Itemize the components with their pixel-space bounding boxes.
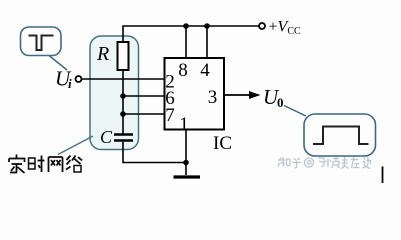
junction dot node 6 [120,93,126,99]
走 [341,157,349,169]
知 [278,157,290,167]
乎 [293,158,302,168]
bubble tail to Ui [49,56,67,71]
svg-text:4: 4 [200,60,210,81]
resistor R body [118,42,129,70]
时 [29,158,36,169]
callout line to timing network label [58,136,93,155]
wire input to pin 2 [82,78,165,80]
IC box [165,58,225,130]
svg-text:1: 1 [179,114,189,135]
timing network highlight box [90,36,139,150]
output waveform (wide positive pulse) [313,127,369,145]
junction dot ground node [183,160,189,166]
svg-text:i: i [68,76,72,91]
svg-text:7: 7 [165,105,175,126]
junction dot pin4 rail [204,23,210,29]
svg-text:8: 8 [178,60,188,81]
wire pin 1 to ground [185,130,187,176]
wire R bottom to capacitor [122,70,124,134]
@ [304,158,313,167]
svg-text:3: 3 [208,87,218,108]
input waveform (narrow negative pulse) [29,36,54,51]
边 [363,157,371,169]
定 [16,155,18,159]
input pulse bubble [21,27,62,56]
stray wire bottom right [382,167,384,184]
wire pin 3 output [224,94,250,96]
capacitor C plates [114,133,133,136]
网 [49,157,63,172]
output bubble tail [284,106,306,117]
svg-text:R: R [96,43,109,65]
惯 [326,157,340,168]
ground bar [174,175,201,178]
svg-text:0: 0 [277,95,284,110]
wire to pin 7 [123,113,165,115]
wire R top to Vcc rail [123,26,259,42]
wire C bottom to ground rail [123,142,186,163]
络 [66,156,71,170]
watermark 知乎 @习惯走左边 [278,157,371,169]
习 [318,158,324,167]
junction dot pin8 rail [183,23,189,29]
wire to pin 6 [123,95,165,97]
Vcc terminal (open circle) [259,23,265,29]
svg-text:C: C [100,127,113,147]
output pulse bubble [304,114,376,156]
output arrowhead [249,91,261,99]
input node (open circle) [76,76,82,82]
wire pin 4 [206,26,208,58]
label 定时网络 [9,155,82,174]
svg-text:IC: IC [213,133,232,154]
wire pin 8 [185,26,187,58]
左 [351,157,360,168]
junction dot node 7 [120,111,126,117]
